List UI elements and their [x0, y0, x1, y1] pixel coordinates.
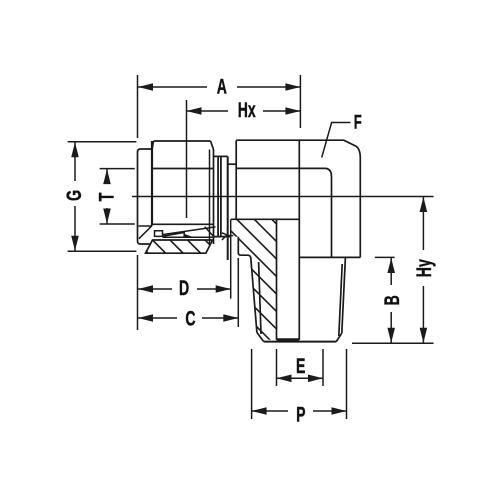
svg-text:D: D: [179, 276, 189, 299]
dimension P extension lines: [251, 349, 253, 419]
svg-text:F: F: [354, 111, 362, 133]
body left edge: [235, 140, 237, 219]
thread right crest line: [342, 257, 346, 333]
dimension P line: [252, 410, 288, 412]
dimension T extension lines: [100, 168, 135, 170]
thread bottom right chamfer: [336, 333, 342, 341]
back ferrule edge lines: [217, 156, 219, 236]
bore end face thick line: [277, 338, 300, 341]
svg-text:Hx: Hx: [238, 98, 256, 121]
leader line for F: [322, 123, 351, 158]
nut cap wall hatch line: [139, 226, 152, 239]
sectioned wall of vertical leg (hatched): [231, 219, 277, 339]
nut hex top-left chamfer: [152, 141, 154, 150]
dimension Hx extension line left: [186, 100, 188, 218]
svg-text:Hy: Hy: [412, 259, 435, 277]
thread right root line: [339, 264, 342, 336]
ferrule step edge: [228, 163, 237, 165]
thread left root line: [259, 262, 261, 334]
nut hex top edge: [154, 140, 211, 142]
nut cap inner bore line (section): [139, 225, 153, 227]
ferrule cone diagonal 2: [163, 233, 185, 237]
nut hex right corner edge: [209, 150, 211, 244]
svg-text:C: C: [185, 307, 195, 330]
ferrule cone diagonal 1: [163, 227, 216, 235]
dimension E line: [277, 377, 324, 379]
body inner bore line with inner corner: [236, 168, 331, 257]
nut hex left face: [151, 141, 153, 226]
thread bottom edge: [264, 341, 337, 343]
svg-text:B: B: [380, 295, 403, 305]
dimension Hy line: [422, 197, 424, 250]
front ferrule edge: [227, 156, 229, 260]
dimension B line: [390, 258, 392, 285]
thread bottom extension to right: [352, 342, 434, 344]
C extension line: [237, 258, 239, 327]
nut hex right face: [213, 150, 215, 245]
nut back cap: [138, 149, 152, 244]
thread left crest line: [251, 258, 257, 333]
thread bottom left chamfer: [257, 333, 264, 342]
svg-text:E: E: [296, 354, 305, 377]
elbow bottom edge: [299, 256, 360, 258]
centerline of horizontal arm: [132, 196, 434, 198]
section wall left boundary / D extension: [230, 219, 232, 298]
tube end arrow blob: [184, 234, 193, 237]
dimension G line: [74, 142, 76, 181]
dimension E extension lines: [276, 349, 278, 386]
dimension C line: [138, 317, 177, 319]
front ferrule hatch line: [205, 227, 215, 238]
body top edge with corner to right edge: [236, 140, 360, 257]
nut hex lower flat line: [152, 223, 214, 225]
nut hex upper flat line: [152, 168, 214, 170]
dimension Hx line: [187, 110, 228, 112]
svg-text:P: P: [296, 403, 305, 426]
dimension A extension line left: [137, 75, 139, 138]
ferrule small block: [155, 231, 163, 237]
dimension T line: [106, 169, 108, 184]
section strip top edge: [231, 218, 299, 220]
bore left wall: [276, 219, 278, 339]
bore shoulder vertical inside elbow: [298, 140, 300, 340]
dimension D line: [138, 288, 172, 290]
dimension G extension lines: [68, 141, 137, 143]
svg-text:A: A: [217, 75, 227, 98]
dimension A line: [138, 86, 207, 88]
wedge short edge: [227, 235, 233, 237]
ferrule vertical tick: [183, 232, 185, 237]
nut hex top-right chamfer: [211, 141, 214, 150]
dimension A/Hx extension line right: [299, 75, 301, 128]
tube end edge: [163, 236, 215, 238]
svg-text:G: G: [62, 190, 85, 201]
svg-text:T: T: [95, 193, 118, 202]
neck bottom edge: [214, 236, 232, 238]
dimension B top extension: [375, 256, 395, 258]
step outline on left of leg: [238, 237, 251, 259]
neck top edge between nut and ferrule: [214, 155, 228, 157]
ferrules sectioned below nut: hatched parallelogram: [146, 240, 213, 253]
dimension D left extension (shared with C): [137, 255, 139, 330]
back ferrule wedge tip: [222, 233, 227, 240]
